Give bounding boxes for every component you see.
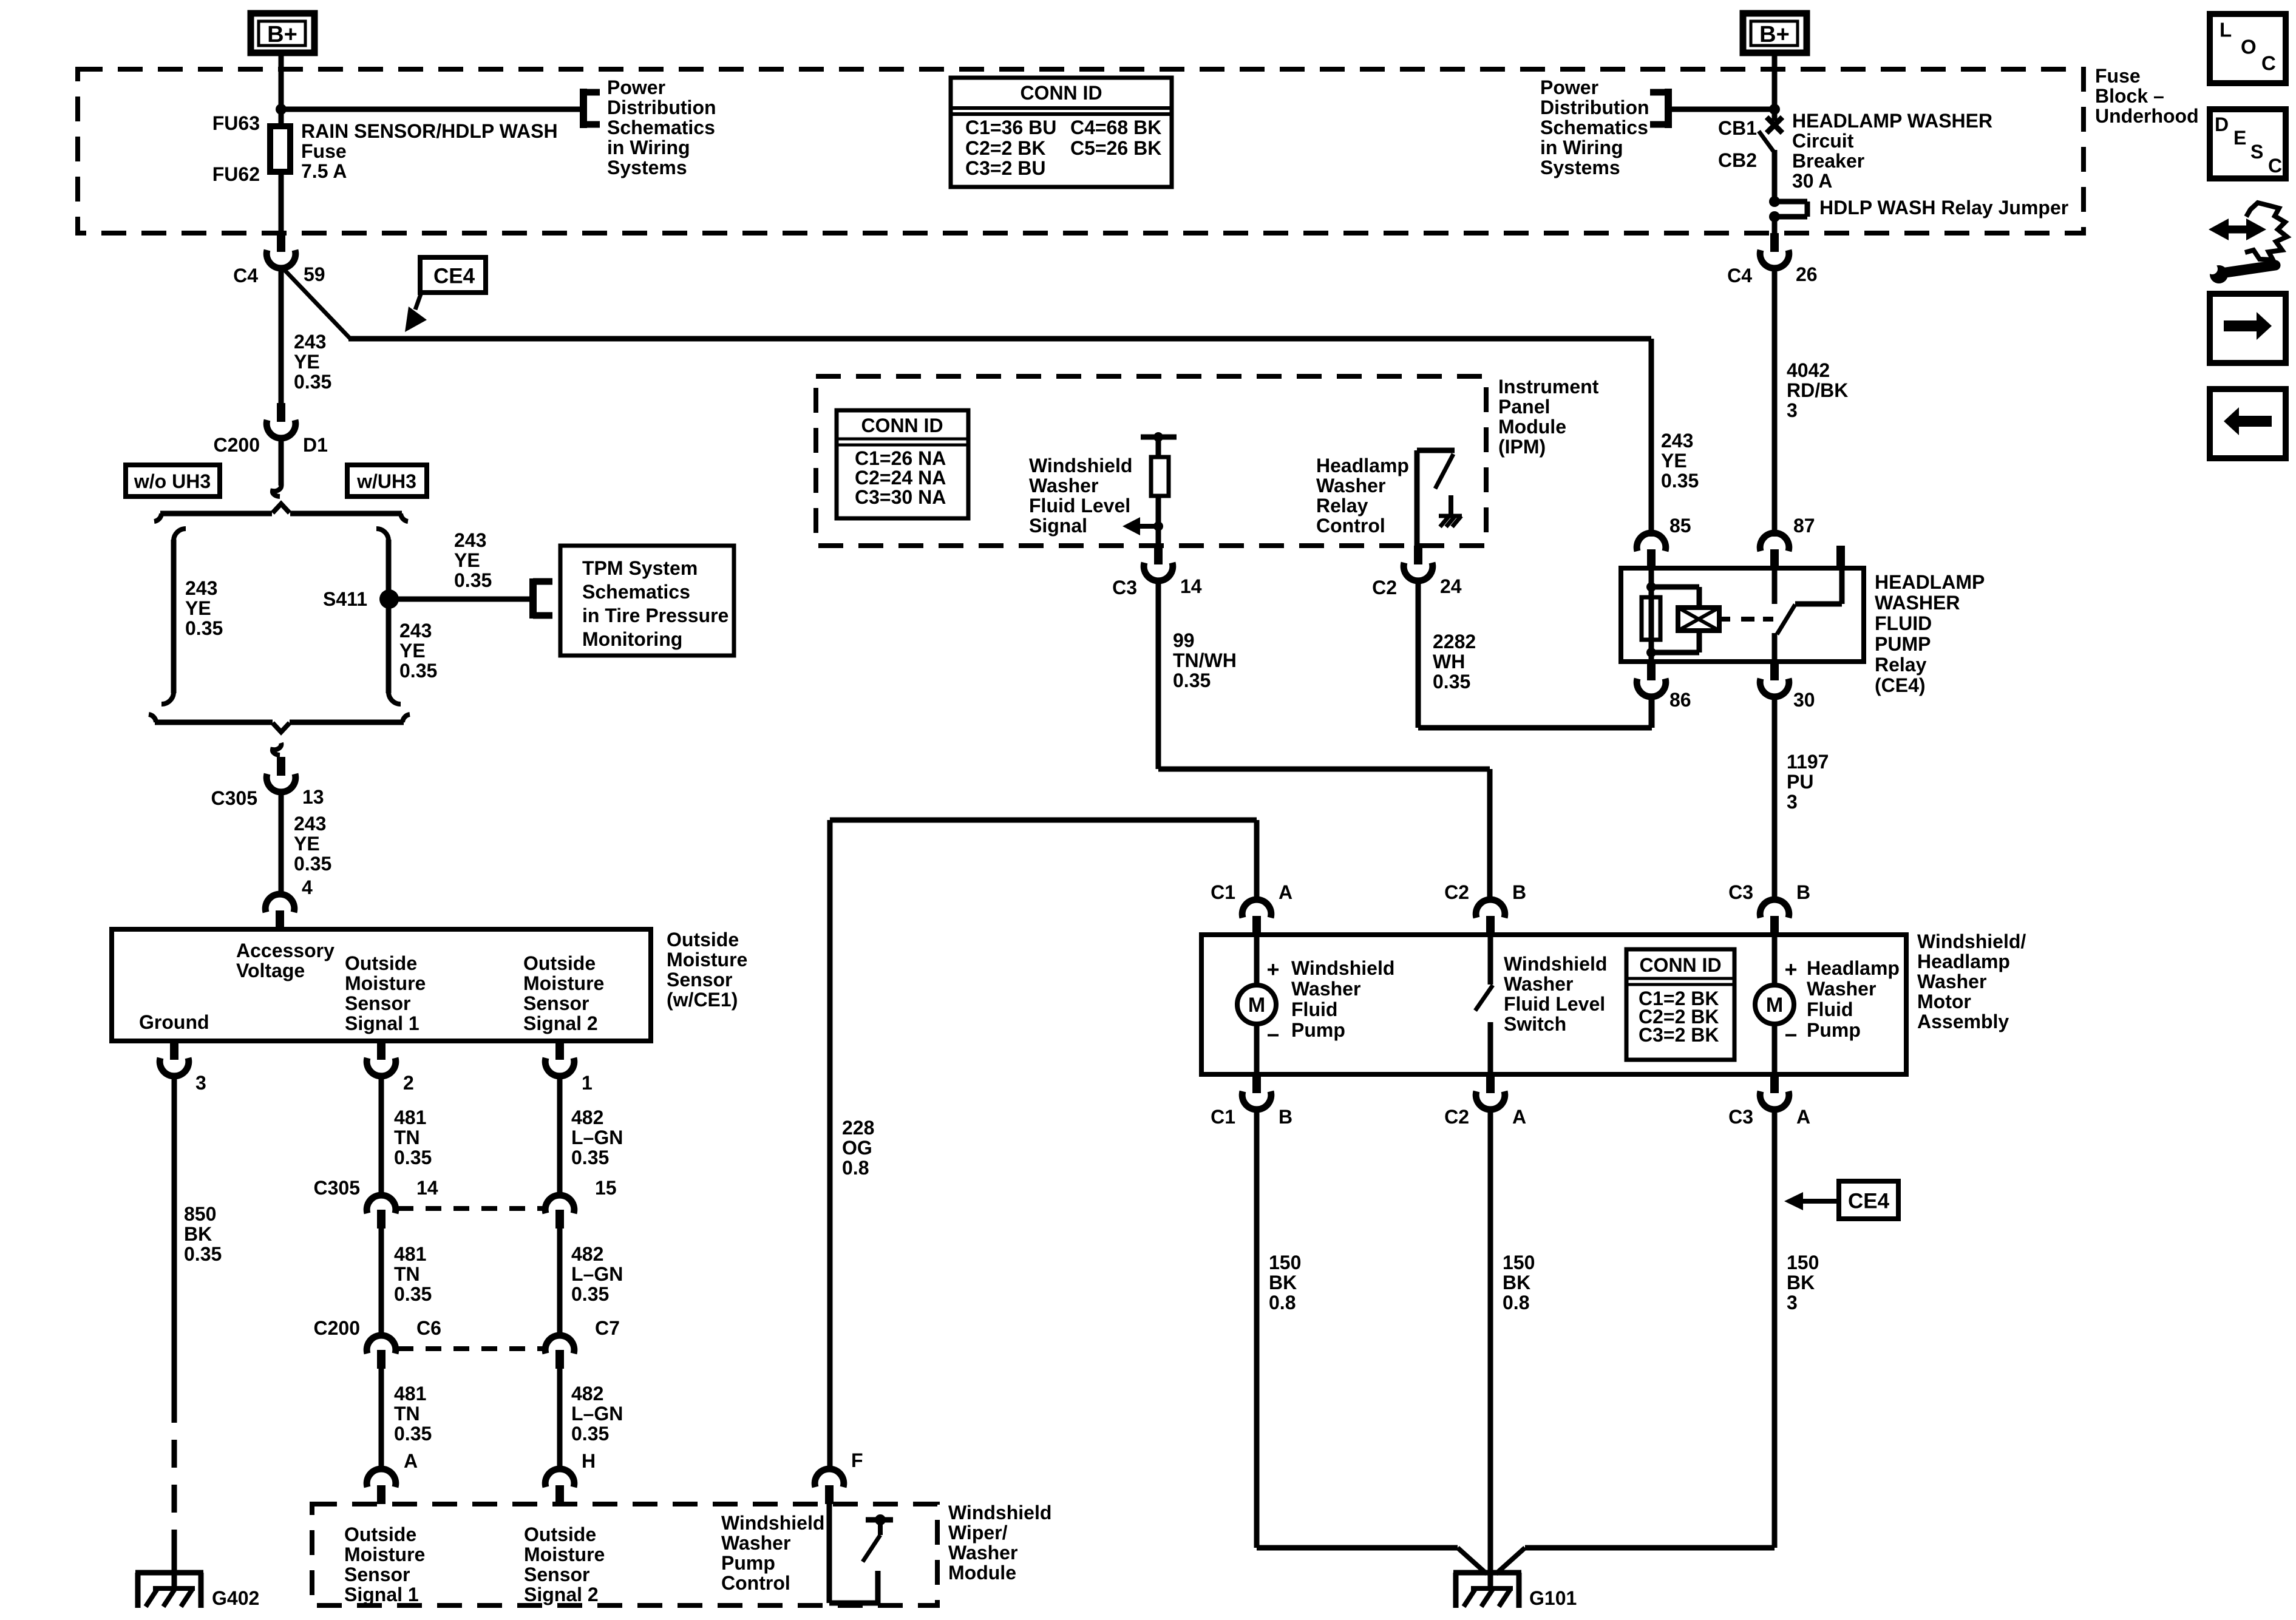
svg-text:Underhood: Underhood [2095,105,2199,127]
connector C4 pin 59 [277,233,285,252]
wire 482 L-GN lower [557,1369,563,1470]
svg-text:59: 59 [304,263,325,285]
svg-text:S411: S411 [323,588,367,610]
svg-text:PUMP: PUMP [1875,633,1931,655]
svg-text:FU62: FU62 [212,163,260,185]
HDLP WASH relay jumper [1769,196,1780,207]
svg-text:C4: C4 [1727,265,1752,286]
svg-text:C3: C3 [1112,577,1137,598]
splice S411 [379,589,399,609]
svg-text:CONN ID: CONN ID [1020,82,1102,104]
svg-text:CE4: CE4 [433,265,475,288]
svg-text:−: − [1784,1023,1797,1048]
svg-text:Control: Control [1316,515,1385,537]
svg-text:C200: C200 [314,1317,361,1339]
svg-text:0.35: 0.35 [571,1423,609,1445]
fuse block underhood dashed box [78,69,2084,233]
svg-text:150: 150 [1269,1252,1301,1273]
svg-text:C4=68 BK: C4=68 BK [1070,117,1161,138]
svg-text:Pump: Pump [1807,1019,1861,1041]
svg-text:HEADLAMP: HEADLAMP [1875,571,1985,593]
wire 150 BK 3 right [1772,1109,1778,1548]
svg-text:Moisture: Moisture [667,949,747,971]
svg-text:481: 481 [394,1107,426,1128]
svg-text:G402: G402 [212,1587,259,1609]
connector pair dashed link C305 [398,1206,544,1211]
headlamp washer circuit breaker CB1 CB2 30A [1772,54,1778,121]
svg-text:C3=2 BK: C3=2 BK [1639,1024,1719,1046]
windshield washer fluid level switch [1488,935,1493,985]
ground junction to G101 [1257,1545,1458,1551]
svg-text:Fuse: Fuse [301,140,347,162]
svg-text:OG: OG [842,1137,872,1159]
svg-text:0.35: 0.35 [394,1147,432,1168]
svg-text:Headlamp: Headlamp [1316,455,1409,476]
svg-text:Sensor: Sensor [667,969,732,991]
connector C4 pin 26 [1770,233,1779,252]
wire 482 L-GN mid [557,1229,563,1335]
option box w/UH3 [347,465,427,497]
left branch arm [174,529,186,541]
svg-text:243: 243 [294,813,326,835]
connector pin 1 signal2 [555,1041,564,1060]
svg-text:C200: C200 [214,434,260,456]
svg-text:RD/BK: RD/BK [1787,379,1848,401]
ground G101 [1453,1570,1521,1576]
svg-text:C: C [2268,155,2282,177]
breaker X mark [1767,117,1782,133]
svg-text:B: B [1796,881,1810,903]
svg-text:2: 2 [403,1072,414,1094]
svg-text:Pump: Pump [721,1552,775,1574]
headlamp washer fluid pump motor [1772,935,1778,985]
svg-text:WH: WH [1433,651,1465,673]
svg-text:YE: YE [1661,450,1687,472]
wire 1197 PU [1772,696,1778,900]
relay pin 86 connector [1647,662,1656,680]
svg-text:Schematics: Schematics [607,117,715,138]
svg-text:Windshield: Windshield [1029,455,1132,476]
inline connector C305 pin 15 [545,1195,574,1213]
breaker blade [1759,131,1773,151]
svg-text:Washer: Washer [948,1542,1017,1564]
svg-text:243: 243 [399,620,432,642]
svg-text:A: A [1512,1106,1526,1128]
svg-text:Systems: Systems [1540,157,1620,178]
IPM CONN ID table [837,410,968,518]
connector C3 pin B [1770,916,1779,935]
svg-text:L–GN: L–GN [571,1263,623,1285]
connector pin 3 ground [170,1041,178,1060]
svg-text:YE: YE [294,351,320,373]
svg-text:Signal 2: Signal 2 [524,1584,599,1605]
svg-text:D1: D1 [303,434,328,456]
svg-text:0.35: 0.35 [1661,470,1699,492]
relay pin 87 connector [1770,549,1779,568]
svg-text:30: 30 [1793,689,1815,711]
relay pin 30 connector [1770,662,1779,680]
connector pin F wiper module [825,1485,834,1504]
svg-text:TN: TN [394,1263,420,1285]
svg-text:in Tire Pressure: in Tire Pressure [582,605,729,626]
svg-text:C2: C2 [1444,881,1469,903]
svg-text:150: 150 [1503,1252,1535,1273]
icon back arrow button [2210,389,2286,458]
headlamp washer relay control driver [1415,450,1420,546]
windshield wiper washer module dashed box [312,1504,937,1605]
svg-text:Washer: Washer [1807,978,1876,1000]
svg-text:Schematics: Schematics [582,581,690,603]
wire 228 OG 0.8 pump control [830,818,1257,823]
inline connector C305 pin 14 [367,1195,396,1213]
svg-text:0.35: 0.35 [294,853,331,875]
svg-text:243: 243 [1661,430,1693,452]
svg-text:1197: 1197 [1787,751,1829,773]
svg-text:3: 3 [1787,399,1798,421]
alternative branch braces w/o UH3 | w/UH3 [273,484,281,497]
wire pin 86 to IPM [1649,696,1654,728]
svg-text:Sensor: Sensor [344,1564,410,1585]
svg-text:Pump: Pump [1291,1019,1345,1041]
svg-text:Module: Module [948,1562,1016,1584]
svg-text:Moisture: Moisture [345,972,426,994]
svg-text:Fluid: Fluid [1291,998,1337,1020]
svg-text:Fuse: Fuse [2095,65,2141,87]
svg-text:Outside: Outside [523,952,596,974]
svg-text:Windshield: Windshield [1291,957,1394,979]
relay solenoid X box [1678,608,1719,631]
svg-text:TN: TN [394,1127,420,1148]
svg-text:14: 14 [1180,575,1202,597]
wire 481 TN upper [379,1076,384,1195]
svg-text:Systems: Systems [607,157,687,178]
motor CONN ID table [1626,949,1734,1060]
svg-text:Signal 1: Signal 1 [344,1584,419,1605]
svg-text:Windshield/: Windshield/ [1917,930,2026,952]
note TPM System Schematics box [560,546,734,656]
svg-text:(w/CE1): (w/CE1) [667,989,738,1011]
icon next arrow button [2210,294,2286,363]
svg-text:850: 850 [184,1203,216,1225]
svg-text:0.35: 0.35 [394,1283,432,1305]
svg-text:C3: C3 [1728,1106,1753,1128]
svg-text:YE: YE [185,597,211,619]
relay switch [1772,568,1778,604]
power terminal B+ left [251,13,314,53]
svg-text:(CE4): (CE4) [1875,674,1926,696]
svg-text:+: + [1266,957,1279,982]
svg-text:L: L [2220,19,2232,41]
svg-text:Instrument: Instrument [1498,376,1599,398]
svg-text:Fluid: Fluid [1807,998,1853,1020]
svg-text:CONN ID: CONN ID [861,415,943,436]
svg-text:Fluid Level: Fluid Level [1029,495,1130,517]
off-page reference bracket TPM [529,578,537,619]
relay pin 85 connector [1647,549,1656,568]
svg-text:WASHER: WASHER [1875,592,1960,614]
svg-text:0.35: 0.35 [1433,671,1470,693]
CE4 flag bottom [1839,1181,1898,1219]
svg-text:Washer: Washer [1291,978,1360,1000]
connector C3 pin A [1770,1074,1779,1093]
svg-text:Washer: Washer [721,1532,790,1554]
svg-text:B+: B+ [1759,22,1790,47]
svg-text:Sensor: Sensor [523,992,589,1014]
svg-text:F: F [851,1449,863,1471]
svg-text:Washer: Washer [1316,475,1385,497]
svg-text:Washer: Washer [1917,971,1986,992]
svg-text:L–GN: L–GN [571,1403,623,1425]
svg-text:HEADLAMP WASHER: HEADLAMP WASHER [1792,110,1992,132]
svg-text:0.35: 0.35 [294,371,331,393]
svg-text:−: − [1266,1023,1279,1048]
connector C1 pin B [1252,1074,1261,1093]
svg-text:Moisture: Moisture [523,972,604,994]
relay linkage dashes [1719,617,1730,622]
instrument panel module dashed box [816,376,1486,546]
svg-text:1: 1 [582,1072,593,1094]
svg-text:482: 482 [571,1383,603,1405]
svg-text:Power: Power [1540,76,1598,98]
svg-text:Outside: Outside [345,952,417,974]
svg-text:4042: 4042 [1787,359,1830,381]
svg-text:26: 26 [1796,263,1818,285]
svg-text:0.35: 0.35 [571,1283,609,1305]
svg-text:H: H [582,1450,596,1472]
svg-text:7.5 A: 7.5 A [301,160,347,182]
svg-text:FLUID: FLUID [1875,612,1932,634]
wire S411 to TPM bracket [389,597,529,602]
svg-text:Signal 1: Signal 1 [345,1012,419,1034]
svg-text:0.35: 0.35 [1173,669,1211,691]
wire 482 L-GN upper [557,1076,563,1195]
svg-text:L–GN: L–GN [571,1127,623,1148]
fuse FU63/FU62 RAIN SENSOR/HDLP WASH 7.5A [270,126,290,172]
svg-text:Outside: Outside [667,929,739,951]
svg-text:Module: Module [1498,416,1566,438]
icon DESC button [2210,109,2286,178]
svg-text:CE4: CE4 [1848,1190,1890,1213]
svg-text:Distribution: Distribution [1540,97,1649,118]
svg-text:Circuit: Circuit [1792,130,1854,152]
wire 99 TN/WH [1156,580,1161,769]
connector C2 pin A [1486,1074,1495,1093]
connector pin H wiper module [555,1485,564,1504]
CE4 flag top [420,257,486,293]
windshield/headlamp washer motor assembly box [1201,935,1906,1074]
svg-text:Signal 2: Signal 2 [523,1012,598,1034]
svg-text:Accessory: Accessory [236,940,335,961]
off-page reference bracket (power distribution right) [1665,89,1672,128]
svg-text:0.8: 0.8 [1503,1292,1529,1313]
svg-text:Wiper/: Wiper/ [948,1522,1008,1544]
svg-text:B+: B+ [267,22,297,47]
svg-text:Relay: Relay [1316,495,1368,517]
svg-text:+: + [1784,957,1797,982]
svg-text:Moisture: Moisture [524,1544,605,1565]
svg-text:in Wiring: in Wiring [1540,137,1623,158]
svg-text:C7: C7 [595,1317,620,1339]
svg-text:85: 85 [1669,515,1691,537]
svg-text:C2=24 NA: C2=24 NA [855,467,946,489]
washer pump control switch [827,1504,832,1603]
svg-text:BK: BK [1503,1272,1530,1293]
svg-text:0.35: 0.35 [399,660,437,682]
svg-text:PU: PU [1787,771,1813,793]
svg-text:YE: YE [294,833,320,855]
svg-text:Schematics: Schematics [1540,117,1648,138]
svg-text:C2: C2 [1372,577,1397,598]
svg-text:C305: C305 [314,1177,361,1199]
svg-text:15: 15 [595,1177,617,1199]
bottom brace of branch [155,720,273,725]
windshield washer fluid pump motor [1254,935,1260,985]
svg-text:YE: YE [454,549,480,571]
wire 481 TN lower [379,1369,384,1470]
inline connector C200 pin C7 [545,1335,574,1354]
svg-text:Panel: Panel [1498,396,1550,418]
connector C3 pin 14 IPM [1154,546,1163,564]
svg-text:Sensor: Sensor [524,1564,589,1585]
connector C2 pin 24 IPM [1414,546,1422,564]
off-page reference bracket (power distribution left) [580,89,587,128]
svg-text:0.35: 0.35 [184,1243,222,1265]
svg-text:RAIN SENSOR/HDLP WASH: RAIN SENSOR/HDLP WASH [301,120,558,142]
svg-text:482: 482 [571,1107,603,1128]
svg-text:C2: C2 [1444,1106,1469,1128]
svg-text:w/UH3: w/UH3 [356,470,416,492]
svg-text:0.35: 0.35 [454,569,492,591]
svg-text:C3: C3 [1728,881,1753,903]
svg-text:E: E [2233,127,2246,149]
svg-text:C3=30 NA: C3=30 NA [855,486,946,508]
svg-text:TN/WH: TN/WH [1173,649,1237,671]
svg-text:0.8: 0.8 [842,1157,869,1179]
svg-text:Monitoring: Monitoring [582,628,682,650]
svg-text:Headlamp: Headlamp [1917,951,2010,972]
wire 150 BK 0.8 left [1254,1109,1260,1548]
wire 243 YE to pin 4 [279,791,284,895]
wire B+ left down [279,54,284,125]
relay 87a stub [1836,546,1845,568]
svg-text:3: 3 [195,1072,206,1094]
svg-text:3: 3 [1787,791,1798,813]
svg-text:Distribution: Distribution [607,97,716,118]
inline connector C200 pin D1 [277,403,285,422]
svg-text:A: A [404,1450,418,1472]
connector pin 2 signal1 [377,1041,385,1060]
svg-text:A: A [1796,1106,1810,1128]
svg-text:0.35: 0.35 [185,617,223,639]
svg-text:B: B [1279,1106,1292,1128]
svg-text:C3=2 BU: C3=2 BU [965,157,1046,179]
connector pin 4 moisture sensor [276,910,284,929]
svg-text:O: O [2241,36,2257,58]
wire 850 BK 0.35 [172,1076,177,1395]
svg-text:G101: G101 [1529,1587,1577,1609]
connector C1 pin A [1252,916,1261,935]
connector pair dashed link C200 [398,1346,544,1351]
relay coil [1649,568,1654,662]
svg-text:Voltage: Voltage [236,960,305,981]
svg-text:243: 243 [294,331,326,353]
connector pin A wiper module [377,1485,385,1504]
svg-text:Washer: Washer [1029,475,1098,497]
svg-text:0.35: 0.35 [394,1423,432,1445]
svg-text:30 A: 30 A [1792,170,1832,192]
svg-text:Outside: Outside [344,1523,416,1545]
svg-text:HDLP WASH Relay Jumper: HDLP WASH Relay Jumper [1819,197,2068,219]
svg-text:Breaker: Breaker [1792,150,1864,172]
svg-text:150: 150 [1787,1252,1819,1273]
svg-text:99: 99 [1173,629,1195,651]
svg-text:228: 228 [842,1117,874,1139]
svg-text:Relay: Relay [1875,654,1927,676]
svg-text:2282: 2282 [1433,631,1476,652]
svg-text:Signal: Signal [1029,515,1087,537]
junction node [276,104,287,115]
outside moisture sensor box [112,929,651,1041]
svg-text:Sensor: Sensor [345,992,410,1014]
right branch arm [376,529,389,541]
svg-text:CB1: CB1 [1718,117,1757,139]
wire 150 BK 0.8 mid [1488,1109,1493,1575]
svg-text:14: 14 [416,1177,438,1199]
svg-text:B: B [1512,881,1526,903]
svg-text:Windshield: Windshield [948,1502,1051,1523]
wire 2282 WH [1416,580,1421,728]
svg-text:0.35: 0.35 [571,1147,609,1168]
wire to off-page bracket left [281,107,580,112]
svg-text:243: 243 [185,577,217,599]
headlamp washer fluid pump relay box [1621,568,1864,662]
svg-text:C4: C4 [233,265,258,286]
svg-text:Switch: Switch [1504,1013,1566,1035]
icon LOC button [2210,14,2286,83]
svg-text:C6: C6 [416,1317,441,1339]
svg-text:481: 481 [394,1243,426,1265]
inline connector C200 pin C6 [367,1335,396,1354]
svg-text:Headlamp: Headlamp [1807,957,1900,979]
svg-text:13: 13 [302,786,324,808]
svg-text:CONN ID: CONN ID [1639,954,1721,976]
svg-text:D: D [2215,114,2229,135]
svg-text:0.8: 0.8 [1269,1292,1296,1313]
svg-text:Control: Control [721,1572,790,1594]
inline connector C305 pin 13 [277,757,285,776]
svg-text:C1: C1 [1211,1106,1235,1128]
wire 243 YE splice to relay coil feed [279,268,284,403]
wire C200 to branch [279,438,284,486]
svg-text:(IPM): (IPM) [1498,436,1546,458]
svg-text:TPM System: TPM System [582,557,698,579]
fuse block CONN ID table [951,78,1172,187]
svg-text:Fluid Level: Fluid Level [1504,993,1605,1015]
svg-text:243: 243 [454,529,486,551]
svg-text:M: M [1248,994,1265,1017]
svg-text:BK: BK [1269,1272,1297,1293]
svg-text:C: C [2261,52,2276,75]
svg-text:C5=26 BK: C5=26 BK [1070,137,1161,159]
svg-text:Block –: Block – [2095,85,2164,107]
wire 481 TN mid [379,1229,384,1335]
svg-text:A: A [1279,881,1292,903]
svg-text:87: 87 [1793,515,1815,537]
svg-text:Windshield: Windshield [721,1512,824,1534]
svg-text:CB2: CB2 [1718,149,1757,171]
svg-text:C1: C1 [1211,881,1235,903]
svg-text:Outside: Outside [524,1523,596,1545]
